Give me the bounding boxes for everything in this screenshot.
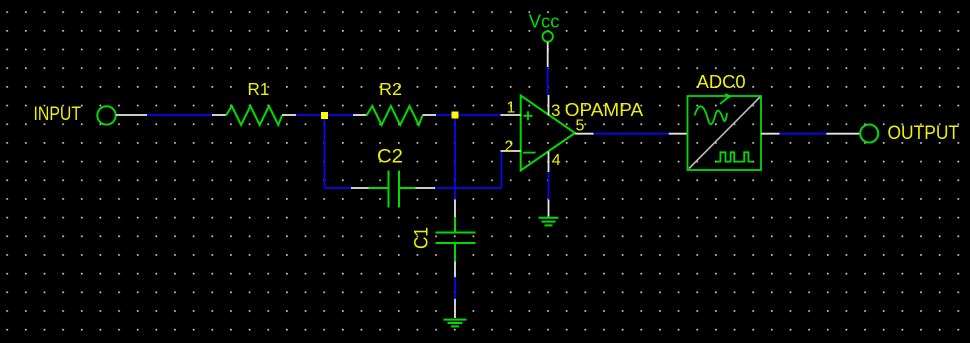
op-amp U1 triangle — [521, 96, 575, 171]
svg-text:5: 5 — [576, 118, 585, 135]
capacitor C2 — [369, 171, 416, 208]
ADC0 sine arrow — [720, 94, 730, 104]
svg-text:OUTPUT: OUTPUT — [888, 123, 960, 144]
op-amp pin3 (V+) — [548, 95, 550, 116]
svg-text:R2: R2 — [379, 79, 402, 99]
port OUTPUT pin — [826, 133, 860, 135]
svg-text:3: 3 — [551, 101, 560, 120]
ground pin (op-amp ground) — [548, 200, 550, 217]
wire feedback up to op-amp pin2 — [501, 151, 503, 188]
wire R2 to node B — [436, 114, 455, 116]
ADC0 diagonal — [689, 97, 760, 169]
resistor R1 pin left — [212, 114, 226, 116]
ADC0 pin left — [669, 133, 688, 135]
wire ADC to output port — [780, 133, 827, 135]
wire op-amp to ADC — [594, 133, 669, 135]
wire feedback right segment — [435, 187, 502, 189]
ground symbol under C1 — [444, 320, 467, 327]
svg-text:C2: C2 — [377, 147, 403, 168]
op-amp minus sign — [523, 152, 536, 154]
wire feedback left segment — [325, 187, 352, 189]
op-amp pin5 output — [575, 133, 594, 135]
wire C1 to ground — [454, 277, 456, 299]
resistor R2 pin left — [353, 114, 367, 116]
svg-text:R1: R1 — [248, 79, 270, 99]
power symbol Vcc — [543, 31, 553, 41]
wire input to R1 — [147, 114, 212, 116]
resistor R2 pin right — [423, 114, 437, 116]
svg-text:INPUT: INPUT — [34, 104, 82, 125]
svg-text:Vcc: Vcc — [529, 11, 560, 32]
wire pin4 to ground — [548, 172, 550, 200]
svg-text:2: 2 — [505, 139, 514, 156]
port INPUT circle — [97, 106, 115, 124]
svg-text:ADC0: ADC0 — [697, 71, 746, 92]
resistor R1 — [226, 106, 282, 125]
op-amp pin1 — [501, 114, 521, 116]
ADC0 body — [688, 96, 762, 170]
ground pin (C1 ground) — [454, 299, 456, 318]
wire Vcc to op-amp pin3 — [547, 67, 549, 95]
capacitor C2 pin right — [416, 187, 436, 189]
ADC0 pin right — [761, 133, 780, 135]
wire node B to C1 — [454, 188, 456, 200]
port OUTPUT circle — [860, 125, 878, 143]
ground symbol under op-amp — [539, 218, 559, 226]
op-amp pin4 (V-) — [548, 152, 550, 173]
junction node B — [452, 112, 459, 119]
capacitor C1 — [436, 217, 476, 262]
wire R1 to node A — [296, 114, 353, 116]
svg-text:1: 1 — [507, 99, 516, 116]
wire node B down — [454, 115, 456, 188]
Vcc pin — [547, 42, 549, 67]
resistor R2 — [367, 106, 423, 125]
junction node A — [321, 112, 328, 119]
ADC0 sine icon — [695, 106, 728, 124]
op-amp pin2 — [501, 150, 521, 152]
wire node A down — [324, 115, 326, 188]
svg-text:4: 4 — [552, 152, 561, 169]
svg-text:C1: C1 — [412, 227, 433, 249]
capacitor C2 pin left — [351, 187, 369, 189]
resistor R1 pin right — [282, 114, 296, 116]
wire node B to op-amp pin1 — [455, 114, 501, 116]
ADC0 square wave icon — [716, 152, 753, 161]
op-amp plus sign — [524, 111, 533, 120]
capacitor C1 pin top — [454, 200, 456, 218]
port INPUT pin — [116, 114, 147, 116]
capacitor C1 pin bottom — [454, 262, 456, 278]
